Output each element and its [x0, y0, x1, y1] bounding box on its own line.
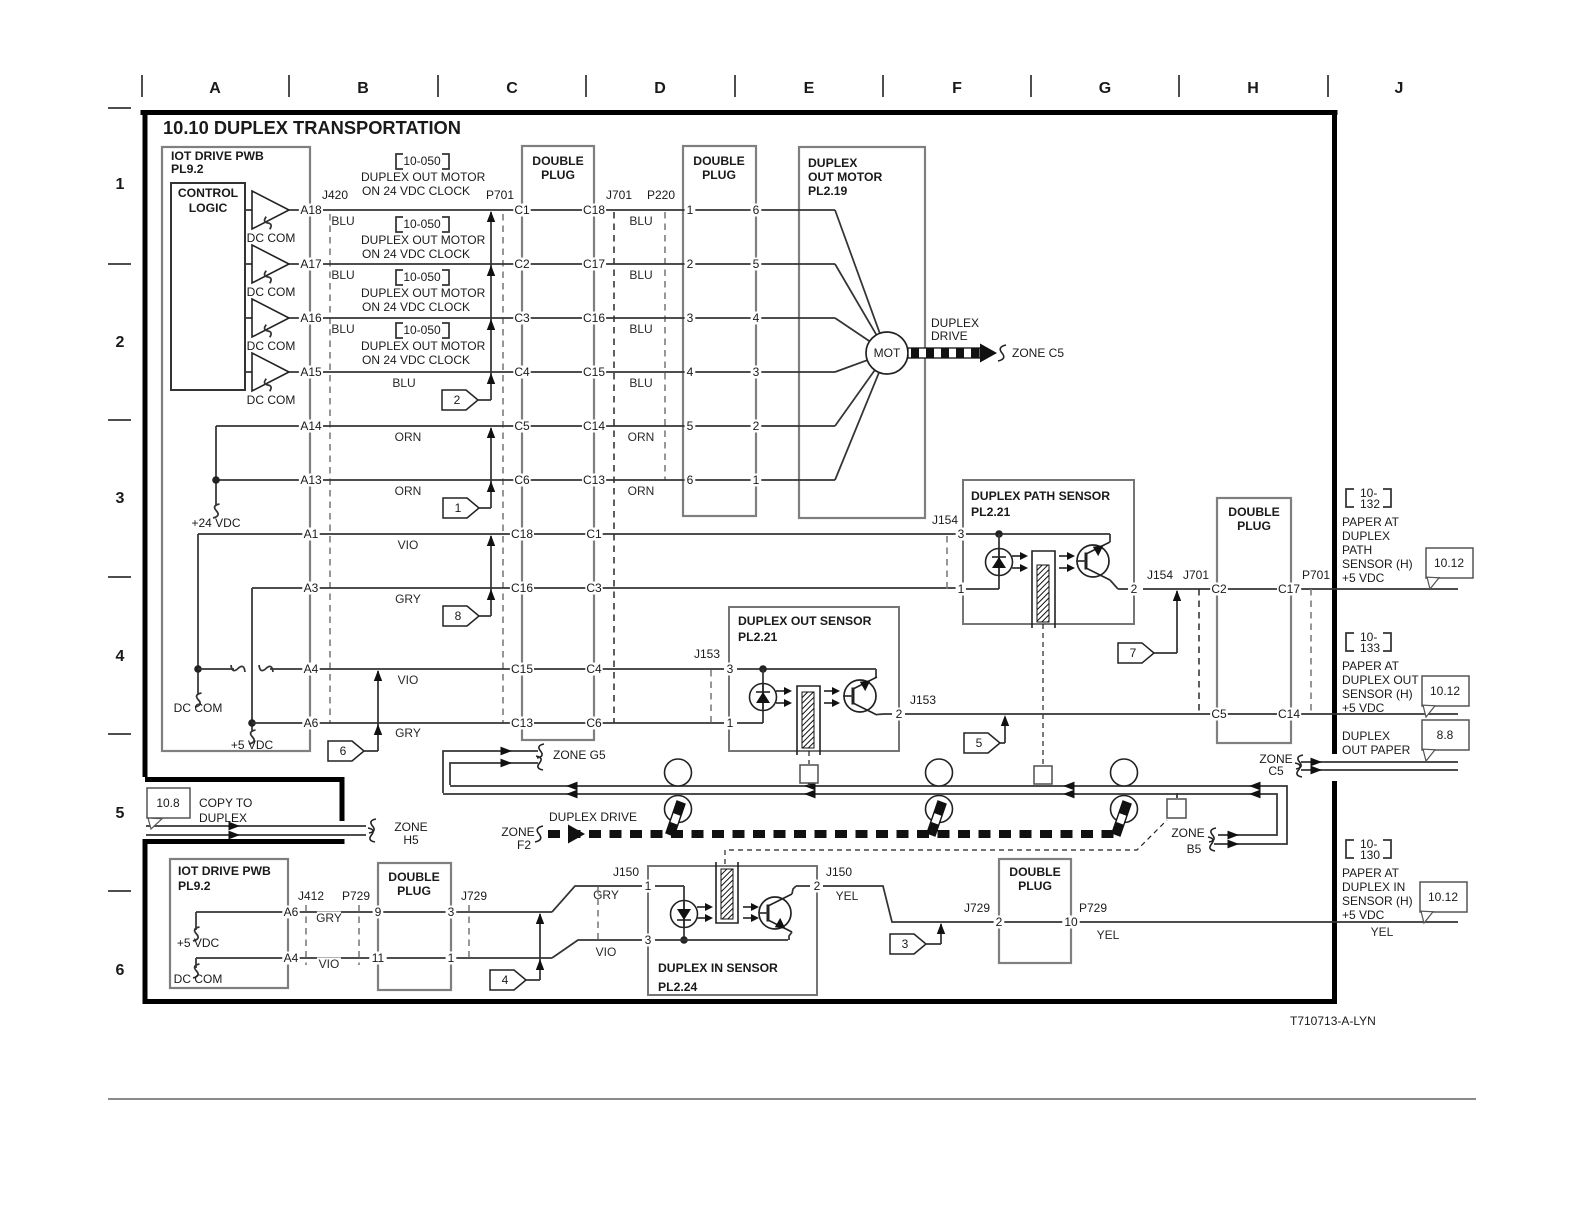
- svg-text:DC COM: DC COM: [247, 285, 296, 299]
- svg-text:C16: C16: [511, 581, 533, 595]
- pin label 11: [369, 951, 386, 965]
- LED out sensor: [750, 684, 777, 711]
- svg-text:3: 3: [448, 905, 455, 919]
- connector J150 dashed: [597, 887, 599, 940]
- svg-text:ON 24 VDC CLOCK: ON 24 VDC CLOCK: [362, 300, 470, 314]
- svg-text:6: 6: [687, 473, 694, 487]
- pin label DP2 left 5: [685, 419, 696, 433]
- pin label A13: [299, 473, 323, 487]
- flag4 arrow line: [539, 914, 541, 980]
- in sensor actuator dashed link: [725, 820, 1167, 864]
- note 10-050 group 1: [361, 154, 486, 198]
- zone H5 squiggle: [369, 819, 376, 833]
- svg-text:SENSOR (H): SENSOR (H): [1342, 894, 1413, 908]
- svg-text:A14: A14: [300, 419, 322, 433]
- svg-text:ORN: ORN: [628, 430, 655, 444]
- svg-text:PLUG: PLUG: [1237, 519, 1271, 533]
- svg-text:8: 8: [455, 609, 462, 623]
- idler roller (1124,773): [1111, 759, 1138, 786]
- svg-text:6: 6: [753, 203, 760, 217]
- label P701: [485, 188, 516, 202]
- svg-text:ZONE G5: ZONE G5: [553, 748, 606, 762]
- flag8 arrow line: [490, 536, 492, 616]
- in sensor pin3 inner wire: [655, 939, 788, 941]
- svg-text:10.12: 10.12: [1434, 556, 1464, 570]
- flag7 arrow line: [1176, 591, 1178, 653]
- svg-text:BLU: BLU: [331, 268, 354, 282]
- flag5 arrow line: [1004, 718, 1006, 743]
- svg-text:2: 2: [996, 915, 1003, 929]
- wire row A17 to motor: [300, 263, 835, 265]
- driver buffer triangle row A15: [245, 353, 289, 391]
- opto arrow in c: [743, 903, 759, 911]
- out sensor emitter/collector leads: [877, 713, 884, 716]
- opto arrow in b: [697, 914, 713, 922]
- svg-text:10-050: 10-050: [403, 323, 441, 337]
- flag1 arrow line: [490, 428, 492, 508]
- callout 8.8: [1422, 720, 1469, 761]
- ruler dash: [108, 733, 131, 735]
- pin 1 in sensor: [643, 879, 654, 893]
- driver buffer triangle row A17: [245, 245, 289, 283]
- wire row A13 to motor: [216, 479, 835, 481]
- svg-text:1: 1: [727, 716, 734, 730]
- svg-text:LOGIC: LOGIC: [189, 201, 228, 215]
- connector J701 dashed: [613, 212, 615, 723]
- frame border top: [141, 110, 1338, 115]
- pointer flag 2: [442, 390, 478, 410]
- svg-text:+5 VDC: +5 VDC: [1342, 908, 1385, 922]
- wire label BLU plug y383: [629, 376, 653, 390]
- double plug DP1 box: [522, 146, 594, 740]
- wire label ORN plug: [628, 430, 655, 444]
- svg-text:1: 1: [448, 951, 455, 965]
- ruler tick: [288, 75, 290, 97]
- svg-text:C4: C4: [514, 365, 530, 379]
- pin label DP1 left C5: [513, 419, 530, 433]
- svg-text:C15: C15: [511, 662, 533, 676]
- wire into motor from row 210: [835, 210, 880, 333]
- ruler dash: [108, 576, 131, 578]
- svg-text:5: 5: [116, 805, 125, 822]
- svg-text:A6: A6: [304, 716, 319, 730]
- svg-text:C: C: [506, 80, 518, 97]
- svg-text:1: 1: [687, 203, 694, 217]
- svg-text:C2: C2: [1211, 582, 1227, 596]
- note 10-133: [1346, 630, 1391, 655]
- zone G5 squiggle: [537, 744, 544, 758]
- pin label DP1 left C1: [513, 203, 530, 217]
- svg-text:COPY TO: COPY TO: [199, 796, 252, 810]
- svg-text:4: 4: [753, 311, 760, 325]
- svg-text:DUPLEX PATH SENSOR: DUPLEX PATH SENSOR: [971, 489, 1110, 503]
- belt arrow left top x566: [566, 782, 578, 791]
- ruler dash: [108, 419, 131, 421]
- pin label DP2 right 3: [751, 365, 762, 379]
- zone F2 squiggle: [535, 826, 543, 842]
- pin label C17: [1277, 582, 1301, 596]
- svg-text:DUPLEX: DUPLEX: [1342, 529, 1390, 543]
- svg-text:1: 1: [116, 176, 125, 193]
- wire label BLU A16: [331, 322, 355, 336]
- svg-text:2: 2: [687, 257, 694, 271]
- wire into motor from row 480: [835, 372, 879, 480]
- svg-text:VIO: VIO: [398, 673, 419, 687]
- svg-text:H5: H5: [403, 833, 419, 847]
- phototransistor in sensor: [759, 894, 792, 932]
- wire label VIO A4: [396, 673, 420, 687]
- svg-text:DUPLEX OUT: DUPLEX OUT: [1342, 673, 1419, 687]
- note 10-130: [1346, 837, 1391, 862]
- belt arrow left bottom x1063: [1063, 790, 1075, 799]
- label J729 left: [459, 889, 490, 903]
- path sensor pin1 inner wire: [966, 588, 999, 590]
- svg-text:BLU: BLU: [629, 268, 652, 282]
- junction A13 +24VDC: [212, 476, 220, 484]
- drive arrowhead: [980, 344, 997, 363]
- pointer flag 6: [328, 741, 364, 761]
- pin label A3: [302, 581, 319, 595]
- break squiggle A4 a: [231, 665, 245, 672]
- svg-text:2: 2: [454, 393, 461, 407]
- svg-text:A16: A16: [300, 311, 322, 325]
- pin 2 out sensor: [894, 707, 905, 721]
- ruler tick: [141, 75, 143, 97]
- wire in sensor pin2 YEL: [823, 886, 1458, 922]
- double plug DP5 box: [999, 859, 1071, 963]
- drive roller (678,809): [665, 796, 692, 823]
- duplex drive belt dashed: [548, 830, 1120, 838]
- frame border right: [1332, 110, 1337, 754]
- svg-text:+5 VDC: +5 VDC: [177, 936, 220, 950]
- callout 10.12 b: [1422, 676, 1469, 717]
- pin label 2 DP5: [994, 915, 1005, 929]
- svg-text:PL2.24: PL2.24: [658, 980, 698, 994]
- pin label DP2 left 2: [685, 257, 696, 271]
- path sensor pin3 inner wire: [966, 533, 1110, 535]
- svg-text:VIO: VIO: [319, 957, 340, 971]
- svg-text:3: 3: [645, 933, 652, 947]
- ruler tick: [1178, 75, 1180, 97]
- svg-text:DOUBLE: DOUBLE: [532, 154, 583, 168]
- wire row A18 to motor: [300, 209, 835, 211]
- pin label A6: [302, 716, 319, 730]
- svg-text:DC COM: DC COM: [174, 701, 223, 715]
- svg-text:PLUG: PLUG: [397, 884, 431, 898]
- svg-text:8.8: 8.8: [1437, 728, 1454, 742]
- wire out sensor pin2 to C5 C14 callout: [905, 713, 1458, 715]
- svg-text:DUPLEX OUT MOTOR: DUPLEX OUT MOTOR: [361, 233, 486, 247]
- flag2 arrow line: [490, 212, 492, 400]
- wire label BLU plug y221: [629, 214, 653, 228]
- wire row A14 to motor: [216, 425, 835, 427]
- belt arrow left top x1063: [1063, 782, 1075, 791]
- pin label A4: [302, 662, 319, 676]
- belt arrow left bottom x566: [566, 790, 578, 799]
- connector P729 dashed: [358, 905, 360, 965]
- duplex drive hatched shaft: [908, 348, 980, 358]
- opto arrow out b: [776, 699, 792, 707]
- pin label DP1 left C15: [510, 662, 534, 676]
- idler roller (939,773): [926, 759, 953, 786]
- svg-text:C14: C14: [1278, 707, 1300, 721]
- svg-text:BLU: BLU: [629, 214, 652, 228]
- zone G5 paper path: [443, 751, 538, 793]
- pin label DP2 right 4: [751, 311, 762, 325]
- pin label DP1 right C13: [582, 473, 606, 487]
- svg-text:ON 24 VDC CLOCK: ON 24 VDC CLOCK: [362, 353, 470, 367]
- label P729 bottom left: [341, 889, 372, 903]
- svg-text:3: 3: [958, 527, 965, 541]
- svg-text:MOT: MOT: [874, 346, 901, 360]
- connector P220 dashed: [664, 212, 666, 480]
- svg-text:OUT MOTOR: OUT MOTOR: [808, 170, 882, 184]
- label J701 right: [1181, 568, 1212, 582]
- svg-text:DC COM: DC COM: [174, 972, 223, 986]
- svg-text:10-050: 10-050: [403, 270, 441, 284]
- opto arrow in a: [697, 903, 713, 911]
- wire label BLU A15: [392, 376, 416, 390]
- in sensor slot: [716, 862, 738, 923]
- svg-text:3: 3: [116, 490, 125, 507]
- opto arrow path b: [1012, 564, 1028, 572]
- svg-text:P729: P729: [1079, 901, 1107, 915]
- junction in sensor LED: [680, 936, 688, 944]
- path sensor slot: [1032, 551, 1055, 628]
- wire label BLU plug y275: [629, 268, 653, 282]
- svg-text:GRY: GRY: [593, 888, 619, 902]
- svg-text:10.12: 10.12: [1430, 684, 1460, 698]
- svg-text:DUPLEX: DUPLEX: [1342, 729, 1390, 743]
- pin label DP2 left 3: [685, 311, 696, 325]
- wire label VIO A1: [396, 538, 420, 552]
- svg-text:J412: J412: [298, 889, 324, 903]
- wire label GRY A6: [395, 726, 421, 740]
- DUPLEX OUT SENSOR box: [729, 607, 899, 751]
- svg-text:A13: A13: [300, 473, 322, 487]
- svg-text:10.10 DUPLEX TRANSPORTATION: 10.10 DUPLEX TRANSPORTATION: [163, 117, 461, 138]
- svg-text:A18: A18: [300, 203, 322, 217]
- svg-text:DUPLEX: DUPLEX: [931, 316, 979, 330]
- svg-text:3: 3: [753, 365, 760, 379]
- svg-text:+5 VDC: +5 VDC: [1342, 571, 1385, 585]
- svg-text:BLU: BLU: [629, 376, 652, 390]
- driver buffer triangle row A16: [245, 299, 289, 337]
- opto arrow out a: [776, 687, 792, 695]
- svg-text:DUPLEX OUT MOTOR: DUPLEX OUT MOTOR: [361, 339, 486, 353]
- zone C5 squiggle: [1296, 755, 1303, 769]
- wire VIO row bottom: [196, 957, 552, 959]
- svg-text:IOT DRIVE PWB: IOT DRIVE PWB: [171, 149, 264, 163]
- pin label DP1 left C2: [513, 257, 530, 271]
- double plug DP4 box: [378, 863, 451, 990]
- svg-text:A4: A4: [284, 951, 299, 965]
- svg-text:C13: C13: [511, 716, 533, 730]
- connector J153 dashed left: [710, 670, 712, 723]
- svg-text:J150: J150: [826, 865, 852, 879]
- svg-text:4: 4: [502, 973, 509, 987]
- svg-text:YEL: YEL: [836, 889, 859, 903]
- squiggle +24VDC: [213, 504, 220, 518]
- junction path sensor LED: [995, 530, 1003, 538]
- svg-text:H: H: [1247, 80, 1259, 97]
- DUPLEX OUT MOTOR box: [799, 147, 925, 518]
- pointer flag 8: [443, 606, 479, 626]
- DUPLEX IN SENSOR box: [648, 866, 817, 995]
- belt arrow left top x1249: [1249, 782, 1261, 791]
- svg-text:ORN: ORN: [628, 484, 655, 498]
- svg-text:ON 24 VDC CLOCK: ON 24 VDC CLOCK: [362, 184, 470, 198]
- pin label 1 DP4: [446, 951, 457, 965]
- zone B5 return square: [1167, 799, 1186, 818]
- wire row A1 C18 C1 to path sensor pin3: [198, 533, 956, 535]
- pin label DP1 left C18: [510, 527, 534, 541]
- svg-text:PLUG: PLUG: [541, 168, 575, 182]
- svg-text:YEL: YEL: [1371, 925, 1394, 939]
- svg-text:SENSOR (H): SENSOR (H): [1342, 687, 1413, 701]
- svg-text:PL2.21: PL2.21: [971, 505, 1011, 519]
- svg-text:3: 3: [902, 937, 909, 951]
- label J150 left: [611, 865, 642, 879]
- svg-text:3: 3: [687, 311, 694, 325]
- wire +5VDC vertical: [251, 588, 253, 732]
- wire label YEL 1: [835, 889, 859, 903]
- svg-text:GRY: GRY: [316, 911, 342, 925]
- pin label DP1 right C18: [582, 203, 606, 217]
- wire row A4 to out sensor pin3: [270, 668, 724, 670]
- label J729 right: [962, 901, 993, 915]
- pin 2 in sensor: [812, 879, 823, 893]
- svg-text:A1: A1: [304, 527, 319, 541]
- pin 1 out sensor: [725, 716, 736, 730]
- svg-text:PL2.19: PL2.19: [808, 184, 848, 198]
- pin 3 out sensor: [725, 662, 736, 676]
- svg-text:A15: A15: [300, 365, 322, 379]
- svg-text:OUT PAPER: OUT PAPER: [1342, 743, 1411, 757]
- svg-text:BLU: BLU: [331, 322, 354, 336]
- callout 10.12 c: [1420, 882, 1467, 923]
- pin label DP1 left C3: [513, 311, 530, 325]
- out sensor actuator dashed: [808, 751, 810, 764]
- svg-text:DC COM: DC COM: [247, 393, 296, 407]
- pointer flag 3: [890, 934, 926, 954]
- opto arrow path a: [1012, 552, 1028, 560]
- svg-text:2: 2: [753, 419, 760, 433]
- svg-text:9: 9: [375, 905, 382, 919]
- idler roller (678,773): [665, 759, 692, 786]
- pin label DP2 right 5: [751, 257, 762, 271]
- LED path sensor: [986, 549, 1013, 576]
- svg-text:ZONE: ZONE: [1171, 826, 1204, 840]
- connector J729 dashed: [468, 905, 470, 958]
- IOT DRIVE PWB bottom box: [170, 859, 288, 988]
- ruler tick: [882, 75, 884, 97]
- wire label VIO bottom1: [317, 957, 341, 971]
- svg-text:DUPLEX IN: DUPLEX IN: [1342, 880, 1405, 894]
- svg-text:IOT DRIVE PWB: IOT DRIVE PWB: [178, 864, 271, 878]
- svg-text:10-050: 10-050: [403, 154, 441, 168]
- out sensor slot: [797, 686, 820, 755]
- pin label C14: [1277, 707, 1301, 721]
- svg-text:BLU: BLU: [331, 214, 354, 228]
- wire label GRY bottom2: [593, 888, 619, 902]
- label P729 right: [1078, 901, 1109, 915]
- svg-text:J153: J153: [694, 647, 720, 661]
- svg-text:10.8: 10.8: [156, 796, 180, 810]
- svg-text:ORN: ORN: [395, 430, 422, 444]
- pin label DP1 right C4: [585, 662, 602, 676]
- pin label DP2 left 4: [685, 365, 696, 379]
- svg-text:+24 VDC: +24 VDC: [191, 516, 240, 530]
- in sensor emitter/collector leads: [792, 886, 796, 894]
- svg-text:10-050: 10-050: [403, 217, 441, 231]
- svg-text:132: 132: [1360, 497, 1380, 511]
- svg-text:P701: P701: [1302, 568, 1330, 582]
- svg-text:DOUBLE: DOUBLE: [693, 154, 744, 168]
- IOT DRIVE PWB box: [162, 147, 310, 751]
- svg-text:T710713-A-LYN: T710713-A-LYN: [1290, 1014, 1376, 1028]
- pin label A14: [299, 419, 323, 433]
- svg-text:DOUBLE: DOUBLE: [1228, 505, 1279, 519]
- wire row A15 to motor: [300, 371, 835, 373]
- bottom rule: [108, 1098, 1476, 1100]
- pin 1 path sensor: [956, 582, 967, 596]
- svg-text:J729: J729: [964, 901, 990, 915]
- svg-text:6: 6: [116, 962, 125, 979]
- svg-text:PATH: PATH: [1342, 543, 1372, 557]
- opto arrow in d: [743, 914, 759, 922]
- arrowhead up: [487, 373, 495, 384]
- wire label YEL 2: [1096, 928, 1120, 942]
- svg-text:DUPLEX OUT MOTOR: DUPLEX OUT MOTOR: [361, 286, 486, 300]
- svg-text:1: 1: [645, 879, 652, 893]
- wire into motor from row 264: [835, 264, 876, 335]
- label J154 left: [930, 513, 961, 527]
- pin 2 path sensor: [1129, 582, 1140, 596]
- flag6 arrow line: [377, 671, 379, 751]
- squiggle DC COM: [195, 693, 202, 707]
- pin label DP2 left 6: [685, 473, 696, 487]
- pin label A6 bottom: [282, 905, 299, 919]
- out sensor LED vertical: [762, 669, 764, 723]
- svg-text:2: 2: [116, 334, 125, 351]
- svg-text:4: 4: [116, 648, 125, 665]
- svg-text:C13: C13: [583, 473, 605, 487]
- pin label DP1 right C3: [585, 581, 602, 595]
- wire label GRY bottom1: [316, 911, 342, 925]
- opto arrow path d: [1059, 564, 1075, 572]
- svg-text:1: 1: [958, 582, 965, 596]
- svg-text:DC COM: DC COM: [247, 339, 296, 353]
- svg-text:P220: P220: [647, 188, 675, 202]
- svg-text:DUPLEX OUT MOTOR: DUPLEX OUT MOTOR: [361, 170, 486, 184]
- svg-text:BLU: BLU: [392, 376, 415, 390]
- svg-text:2: 2: [1131, 582, 1138, 596]
- pin label A4 bottom: [282, 951, 299, 965]
- pin label 3 DP4: [446, 905, 457, 919]
- svg-text:PLUG: PLUG: [702, 168, 736, 182]
- in sensor LED vertical: [683, 886, 685, 940]
- svg-text:ZONE: ZONE: [394, 820, 427, 834]
- wire into motor from row 318: [835, 318, 870, 341]
- connector J420 dashed: [329, 214, 331, 723]
- ruler tick: [734, 75, 736, 97]
- CONTROL LOGIC box: [171, 183, 245, 390]
- svg-text:F: F: [952, 80, 962, 97]
- ruler dash: [108, 890, 131, 892]
- svg-text:J: J: [1395, 80, 1404, 97]
- svg-text:J701: J701: [1183, 568, 1209, 582]
